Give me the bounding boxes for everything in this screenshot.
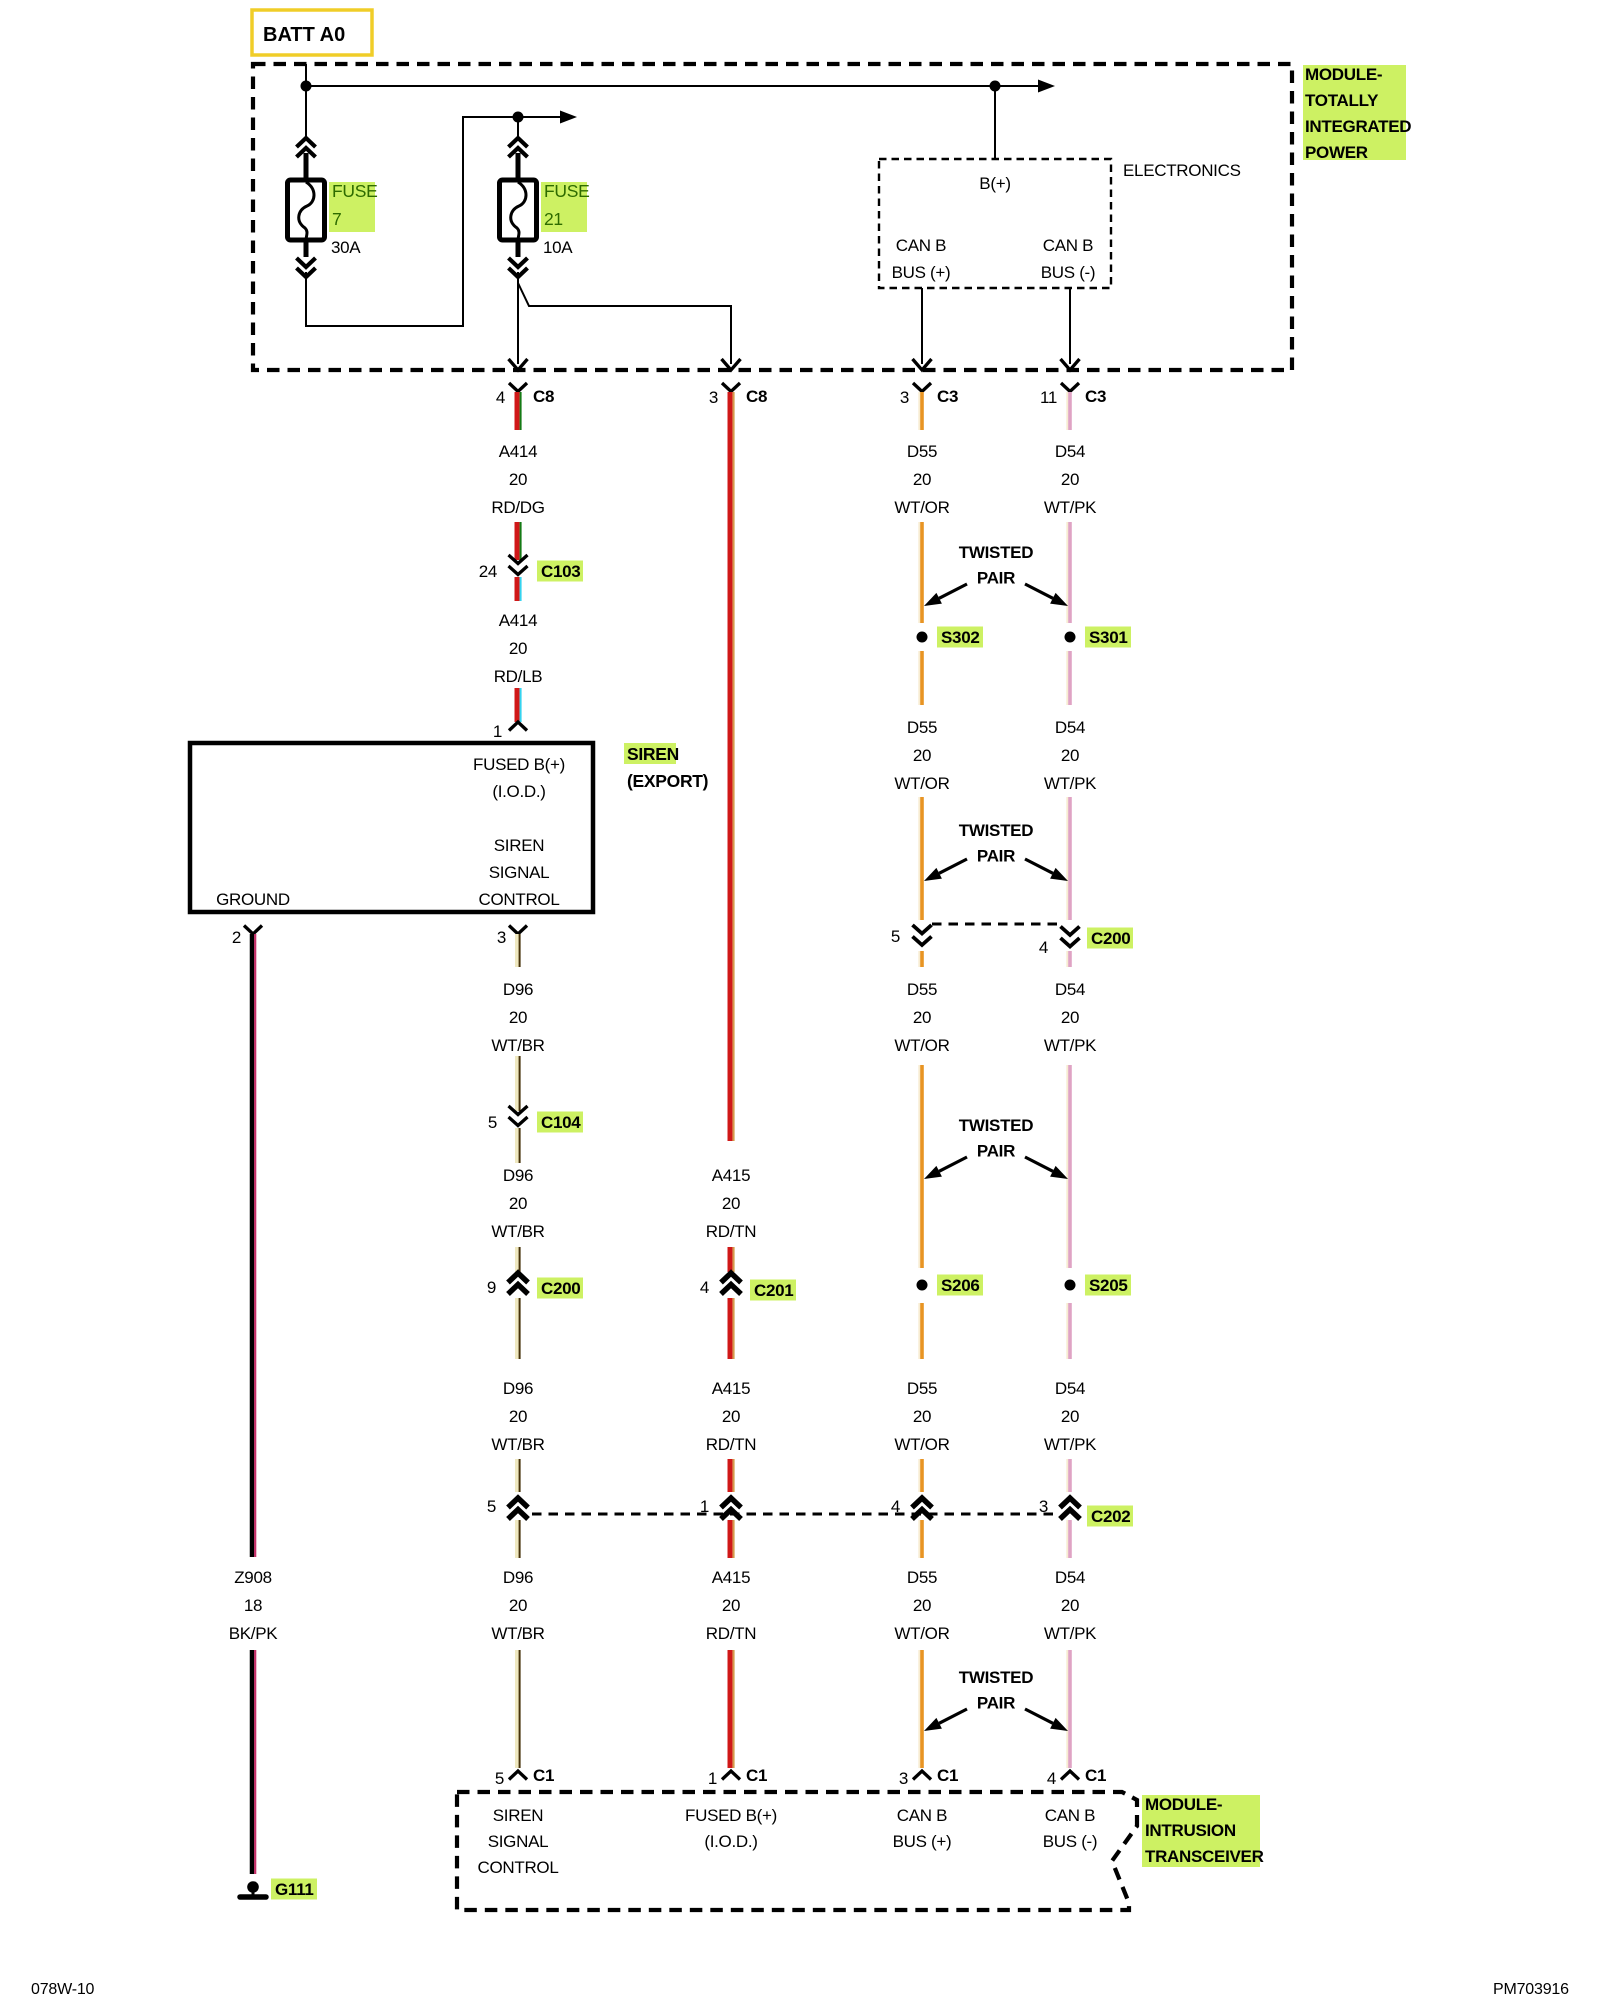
svg-text:D55: D55: [907, 1379, 937, 1398]
inline connector C200 dashed link: [932, 923, 1058, 926]
svg-text:CONTROL: CONTROL: [478, 890, 559, 909]
svg-text:C103: C103: [541, 562, 580, 581]
wire D54 WT/PK (6): [1066, 1065, 1068, 1268]
wire D54 WT/PK (3): [1066, 651, 1068, 705]
svg-text:BUS (+): BUS (+): [892, 263, 951, 282]
svg-text:20: 20: [1061, 1596, 1079, 1615]
label FUSE 21 highlight: [541, 182, 587, 232]
svg-text:D54: D54: [1055, 1568, 1085, 1587]
svg-text:SIGNAL: SIGNAL: [488, 1832, 549, 1851]
svg-text:WT/BR: WT/BR: [491, 1036, 544, 1055]
svg-text:WT/OR: WT/OR: [894, 1624, 949, 1643]
wire D55 WT/OR (6): [918, 1065, 920, 1268]
wire D54 WT/PK stub: [1066, 392, 1068, 430]
svg-text:C1: C1: [533, 1766, 554, 1785]
svg-text:24: 24: [479, 562, 497, 581]
svg-text:G111: G111: [275, 1880, 314, 1899]
wire D96 WT/BR (2): [515, 1128, 520, 1163]
svg-text:D54: D54: [1055, 980, 1085, 999]
wire fuse7 to fuse21 top (down, right, up): [306, 117, 516, 326]
svg-text:9: 9: [487, 1278, 496, 1297]
ground G111 symbol: [247, 1881, 259, 1893]
svg-text:A415: A415: [712, 1166, 751, 1185]
connector C1 pin 1: [722, 1771, 740, 1780]
svg-text:A415: A415: [712, 1379, 751, 1398]
label C202: [1087, 1506, 1133, 1527]
wire Z908 BK/PK upper: [250, 934, 255, 1557]
label C201: [750, 1280, 796, 1301]
wire stub to arrow: [518, 116, 561, 118]
svg-text:1: 1: [700, 1497, 709, 1516]
wire Z908 BK/PK lower: [250, 1650, 255, 1874]
svg-text:WT/OR: WT/OR: [894, 498, 949, 517]
svg-text:PAIR: PAIR: [977, 847, 1015, 866]
svg-text:BUS (-): BUS (-): [1041, 263, 1096, 282]
exit arrow C3 pin11: [1061, 359, 1080, 370]
module TIPM dashed outline: [253, 64, 1292, 370]
connector C200 pin 5: [913, 925, 932, 934]
junction node top of fuse 21: [513, 112, 524, 123]
svg-text:TWISTED: TWISTED: [959, 1116, 1033, 1135]
svg-text:20: 20: [722, 1407, 740, 1426]
svg-text:C202: C202: [1091, 1507, 1130, 1526]
wire D96 WT/BR stub: [515, 934, 520, 967]
svg-text:PAIR: PAIR: [977, 1142, 1015, 1161]
svg-text:TWISTED: TWISTED: [959, 1668, 1033, 1687]
svg-text:RD/TN: RD/TN: [706, 1222, 756, 1241]
svg-text:5: 5: [495, 1769, 504, 1788]
svg-text:CAN B: CAN B: [1045, 1806, 1095, 1825]
svg-text:RD/TN: RD/TN: [706, 1624, 756, 1643]
wire D54 WT/PK (5): [1066, 951, 1068, 967]
svg-text:20: 20: [509, 1596, 527, 1615]
svg-text:S301: S301: [1089, 628, 1128, 647]
exit arrow C8 pin4: [509, 359, 528, 370]
svg-text:PAIR: PAIR: [977, 1694, 1015, 1713]
svg-text:C8: C8: [533, 387, 554, 406]
svg-text:21: 21: [544, 209, 563, 229]
svg-text:WT/OR: WT/OR: [894, 1435, 949, 1454]
svg-text:WT/BR: WT/BR: [491, 1222, 544, 1241]
wire A415 RD/TN (4): [728, 1459, 733, 1492]
label SIREN highlight: [624, 743, 676, 764]
label MODULE-TOTALLY INTEGRATED POWER: [1303, 65, 1406, 160]
svg-text:20: 20: [1061, 1407, 1079, 1426]
wire BATT A0 drop: [305, 64, 307, 139]
label S206: [937, 1275, 983, 1296]
connector siren pin 1: [509, 722, 527, 731]
wire D54 WT/PK (7): [1066, 1303, 1068, 1359]
svg-text:4: 4: [700, 1278, 709, 1297]
svg-text:20: 20: [509, 470, 527, 489]
exit arrow C3 pin3: [913, 359, 932, 370]
svg-text:20: 20: [1061, 1008, 1079, 1027]
label S302: [937, 627, 983, 648]
connector C3 pin 11: [1061, 383, 1079, 392]
svg-text:(I.O.D.): (I.O.D.): [704, 1832, 757, 1851]
svg-text:FUSED B(+): FUSED B(+): [473, 755, 565, 774]
svg-text:3: 3: [900, 388, 909, 407]
svg-text:20: 20: [913, 1596, 931, 1615]
svg-text:CAN B: CAN B: [897, 1806, 947, 1825]
svg-text:2: 2: [232, 928, 241, 947]
connector C3 pin 3: [913, 383, 931, 392]
label C200: [1087, 928, 1133, 949]
svg-text:3: 3: [497, 928, 506, 947]
wire A415 RD/TN (3): [728, 1298, 733, 1359]
svg-text:1: 1: [493, 722, 502, 741]
module intrusion transceiver dashed outline: [457, 1792, 1137, 1910]
svg-text:20: 20: [509, 1407, 527, 1426]
wire A415 RD/TN (5): [728, 1520, 733, 1558]
battery feed box BATT A0: [252, 10, 372, 55]
svg-text:20: 20: [913, 470, 931, 489]
fuse F21 10A: [517, 117, 519, 139]
label C200 (inline): [537, 1278, 583, 1299]
electronics inner dashed box: [879, 159, 1111, 288]
svg-text:PM703916: PM703916: [1493, 1981, 1569, 1998]
inline connector C200 col1 (9): [508, 1273, 528, 1283]
svg-text:CONTROL: CONTROL: [477, 1858, 558, 1877]
svg-text:SIREN: SIREN: [627, 744, 679, 764]
svg-text:C200: C200: [541, 1279, 580, 1298]
connector C1 pin 4: [1061, 1771, 1079, 1780]
svg-text:D55: D55: [907, 718, 937, 737]
svg-text:TOTALLY: TOTALLY: [1305, 91, 1379, 110]
svg-text:20: 20: [722, 1194, 740, 1213]
inline connector C201 (4): [721, 1273, 741, 1283]
svg-text:10A: 10A: [543, 238, 573, 257]
svg-text:WT/PK: WT/PK: [1044, 498, 1097, 517]
wire D54 WT/PK (10): [1066, 1650, 1068, 1768]
wire A414 RD/LB: [515, 577, 520, 601]
svg-text:WT/OR: WT/OR: [894, 1036, 949, 1055]
splice S205: [1065, 1280, 1076, 1291]
svg-text:WT/OR: WT/OR: [894, 774, 949, 793]
svg-text:MODULE-: MODULE-: [1305, 65, 1382, 84]
wire D96 WT/BR (6): [515, 1520, 520, 1558]
svg-text:A414: A414: [499, 611, 538, 630]
wire D55 WT/OR (5): [918, 951, 920, 967]
wire D55 WT/OR (10): [918, 1650, 920, 1768]
svg-text:S205: S205: [1089, 1276, 1128, 1295]
svg-text:BATT A0: BATT A0: [263, 24, 345, 46]
svg-text:WT/PK: WT/PK: [1044, 1036, 1097, 1055]
svg-text:D54: D54: [1055, 718, 1085, 737]
wire D96 WT/BR (4): [515, 1298, 520, 1359]
svg-text:SIGNAL: SIGNAL: [489, 863, 550, 882]
svg-text:(EXPORT): (EXPORT): [627, 771, 708, 791]
wire A415 RD/TN long: [728, 392, 733, 1141]
label MODULE-INTRUSION TRANSCEIVER: [1142, 1795, 1260, 1867]
svg-text:FUSED B(+): FUSED B(+): [685, 1806, 777, 1825]
connector C8 pin 4: [509, 383, 527, 392]
label C103: [537, 561, 583, 582]
svg-text:4: 4: [1047, 1769, 1056, 1788]
svg-text:TWISTED: TWISTED: [959, 543, 1033, 562]
svg-text:20: 20: [509, 1008, 527, 1027]
wire D55 WT/OR (4): [918, 797, 920, 920]
connector siren pin 2: [244, 926, 262, 935]
wire A415 RD/TN (6): [728, 1650, 733, 1768]
wire D96 WT/BR (7): [515, 1650, 520, 1768]
svg-text:20: 20: [1061, 746, 1079, 765]
connector C200 pin 4: [1061, 927, 1080, 936]
svg-text:WT/PK: WT/PK: [1044, 774, 1097, 793]
svg-text:PAIR: PAIR: [977, 569, 1015, 588]
svg-text:20: 20: [913, 1407, 931, 1426]
wire A415 RD/TN (2): [728, 1247, 733, 1272]
arrowhead feed continues right: [560, 111, 577, 124]
svg-text:4: 4: [496, 388, 505, 407]
wire A414 RD/LB to siren: [515, 688, 520, 722]
svg-text:3: 3: [709, 388, 718, 407]
wire D55 WT/OR (3): [918, 651, 920, 705]
svg-text:20: 20: [913, 1008, 931, 1027]
label FUSE 7 highlight: [329, 182, 375, 232]
svg-text:SIREN: SIREN: [494, 836, 544, 855]
svg-text:D96: D96: [503, 1166, 533, 1185]
junction node at B(+) column: [990, 81, 1001, 92]
svg-text:WT/PK: WT/PK: [1044, 1624, 1097, 1643]
svg-text:3: 3: [899, 1769, 908, 1788]
exit arrow C8 pin3: [722, 359, 741, 370]
wire A414 RD/DG stub: [515, 392, 520, 430]
label S205: [1085, 1275, 1131, 1296]
wire A414 RD/DG: [515, 522, 520, 560]
wire D54 WT/PK (4): [1066, 797, 1068, 920]
wire D55 WT/OR (7): [918, 1303, 920, 1359]
svg-text:4: 4: [1039, 938, 1048, 957]
svg-text:S302: S302: [941, 628, 980, 647]
wire battery bus horizontal: [306, 85, 1039, 87]
svg-text:(I.O.D.): (I.O.D.): [492, 782, 545, 801]
svg-text:CAN B: CAN B: [896, 236, 946, 255]
svg-text:C1: C1: [1085, 1766, 1106, 1785]
svg-text:4: 4: [891, 1497, 900, 1516]
svg-text:20: 20: [913, 746, 931, 765]
svg-text:WT/BR: WT/BR: [491, 1624, 544, 1643]
fuse F7 30A: [297, 138, 316, 147]
svg-text:BUS (-): BUS (-): [1043, 1832, 1098, 1851]
wire D55 WT/OR (2): [918, 522, 920, 623]
svg-text:POWER: POWER: [1305, 143, 1368, 162]
svg-text:B(+): B(+): [979, 174, 1010, 193]
svg-text:BK/PK: BK/PK: [229, 1624, 279, 1643]
svg-text:20: 20: [722, 1596, 740, 1615]
svg-text:SIREN: SIREN: [493, 1806, 543, 1825]
svg-text:S206: S206: [941, 1276, 980, 1295]
wire D96 WT/BR (5): [515, 1459, 520, 1492]
svg-text:078W-10: 078W-10: [31, 1981, 95, 1998]
connector C8 pin 3: [722, 383, 740, 392]
svg-text:20: 20: [509, 639, 527, 658]
svg-text:C200: C200: [1091, 929, 1130, 948]
svg-text:1: 1: [708, 1769, 717, 1788]
inline connector C103 (24): [509, 555, 528, 564]
wire D55 WT/OR (8): [918, 1459, 920, 1492]
svg-text:18: 18: [244, 1596, 262, 1615]
wire branch fuse21 to C8 pin3 exit: [518, 283, 731, 364]
wire D96 WT/BR (3): [515, 1247, 520, 1272]
connector C202 pin 4: [912, 1498, 932, 1508]
svg-text:D54: D54: [1055, 1379, 1085, 1398]
svg-text:A415: A415: [712, 1568, 751, 1587]
label C104: [537, 1112, 583, 1133]
svg-text:C3: C3: [937, 387, 958, 406]
connector C202 pin 3: [1060, 1498, 1080, 1508]
inline connector C202 dashed link: [532, 1513, 1057, 1516]
connector C1 pin 5: [509, 1771, 527, 1780]
connector C202 pin 1: [721, 1498, 741, 1508]
svg-text:C201: C201: [754, 1281, 793, 1300]
wire D96 WT/BR: [515, 1056, 520, 1111]
wire D55 WT/OR (9): [918, 1520, 920, 1558]
svg-text:TWISTED: TWISTED: [959, 821, 1033, 840]
svg-text:TRANSCEIVER: TRANSCEIVER: [1145, 1847, 1264, 1866]
svg-text:5: 5: [891, 927, 900, 946]
wire CAN B BUS(+) exit: [921, 288, 923, 364]
svg-text:5: 5: [488, 1113, 497, 1132]
svg-text:INTEGRATED: INTEGRATED: [1305, 117, 1411, 136]
svg-text:CAN B: CAN B: [1043, 236, 1093, 255]
svg-text:D96: D96: [503, 980, 533, 999]
svg-text:C104: C104: [541, 1113, 581, 1132]
svg-text:BUS (+): BUS (+): [893, 1832, 952, 1851]
svg-text:7: 7: [332, 209, 341, 229]
label G111: [271, 1879, 317, 1900]
svg-text:ELECTRONICS: ELECTRONICS: [1123, 161, 1241, 180]
wire CAN B BUS(-) exit: [1069, 288, 1071, 364]
svg-text:Z908: Z908: [234, 1568, 272, 1587]
wire B(+) drop into electronics: [994, 86, 996, 159]
svg-text:FUSE: FUSE: [544, 181, 589, 201]
wire D54 WT/PK (8): [1066, 1459, 1068, 1492]
label S301: [1085, 627, 1131, 648]
svg-text:C3: C3: [1085, 387, 1106, 406]
svg-text:INTRUSION: INTRUSION: [1145, 1821, 1236, 1840]
arrowhead battery bus continues right: [1038, 80, 1055, 93]
svg-text:C8: C8: [746, 387, 767, 406]
svg-text:RD/DG: RD/DG: [491, 498, 544, 517]
svg-text:20: 20: [509, 1194, 527, 1213]
svg-text:RD/TN: RD/TN: [706, 1435, 756, 1454]
svg-text:20: 20: [1061, 470, 1079, 489]
svg-text:3: 3: [1039, 1497, 1048, 1516]
svg-text:D96: D96: [503, 1568, 533, 1587]
module SIREN (EXPORT) box: [190, 743, 593, 912]
svg-text:D96: D96: [503, 1379, 533, 1398]
svg-text:C1: C1: [937, 1766, 958, 1785]
svg-text:D55: D55: [907, 442, 937, 461]
svg-text:D55: D55: [907, 980, 937, 999]
svg-text:GROUND: GROUND: [216, 890, 290, 909]
svg-text:D54: D54: [1055, 442, 1085, 461]
splice S302: [917, 632, 928, 643]
wire fuse21 to C8 pin4 exit: [517, 272, 519, 364]
connector C202 pin 5: [508, 1498, 528, 1508]
connector siren pin 3: [509, 926, 527, 935]
inline connector C104 (5): [509, 1106, 528, 1115]
svg-text:FUSE: FUSE: [332, 181, 377, 201]
splice S301: [1065, 632, 1076, 643]
wire D54 WT/PK (9): [1066, 1520, 1068, 1558]
wire D54 WT/PK (2): [1066, 522, 1068, 623]
svg-text:A414: A414: [499, 442, 538, 461]
svg-text:D55: D55: [907, 1568, 937, 1587]
splice S206: [917, 1280, 928, 1291]
svg-text:5: 5: [487, 1497, 496, 1516]
junction node at fuse 7 column: [301, 81, 312, 92]
svg-text:RD/LB: RD/LB: [494, 667, 543, 686]
wire D55 WT/OR stub: [918, 392, 920, 430]
svg-text:MODULE-: MODULE-: [1145, 1795, 1222, 1814]
svg-text:11: 11: [1040, 388, 1057, 407]
svg-text:30A: 30A: [331, 238, 361, 257]
svg-text:WT/PK: WT/PK: [1044, 1435, 1097, 1454]
svg-text:C1: C1: [746, 1766, 767, 1785]
connector C1 pin 3: [913, 1771, 931, 1780]
svg-text:WT/BR: WT/BR: [491, 1435, 544, 1454]
